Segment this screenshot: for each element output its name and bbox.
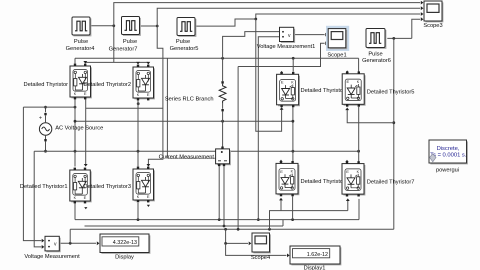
svg-text:powergui: powergui	[436, 168, 459, 174]
open port arrow: thyristor6 E	[279, 160, 282, 162]
svg-text:Pulse: Pulse	[176, 39, 190, 45]
svg-text:E: E	[346, 79, 349, 84]
pulse generator block Pulse Generator7	[122, 17, 141, 36]
svg-text:Voltage Measurement: Voltage Measurement	[24, 254, 80, 260]
wire: bus riser to Detailed Thyristor anode	[74, 58, 76, 63]
wire: thyristor3 cathode drop	[137, 203, 139, 220]
wire: bottom bus riser to Detailed Thyristor7	[358, 199, 360, 220]
open port arrow: thyristor4 E	[280, 71, 283, 73]
node: junction AC minus on mid bus	[44, 150, 47, 153]
block Detailed Thyristor3	[133, 167, 155, 203]
wire: left column down to Voltage Measurement plus	[23, 107, 41, 241]
voltage measurement block VM1	[280, 27, 296, 43]
AC voltage source	[39, 113, 52, 141]
svg-text:Pulse: Pulse	[123, 39, 137, 45]
svg-text:4.322e-13: 4.322e-13	[113, 240, 137, 246]
node: bus junction at Series RLC Branch and VM1	[221, 57, 224, 60]
open port arrow: thyristor1 E down	[84, 207, 87, 209]
svg-text:Detailed Thyristor: Detailed Thyristor	[301, 179, 346, 185]
wire: PG6 signal up to Scope3 input 4	[412, 19, 420, 38]
node: junction on right column at load line	[292, 120, 295, 123]
wire: line from AC plus to left column and anode column	[23, 106, 75, 108]
wire: Current Measurement output drops	[218, 166, 220, 219]
wire: run to Display1	[226, 243, 287, 255]
wire: PG7 gate feed down with jog to Detailed Thyristor3 gate	[148, 26, 163, 164]
pulse generator block Pulse Generator6	[366, 29, 386, 49]
wire: gate branch to Detailed Thyristor5	[347, 110, 394, 123]
node: junction for thyristor5 gate branch	[392, 121, 395, 124]
svg-text:AC Voltage Source: AC Voltage Source	[55, 126, 103, 132]
wire: bus drop to Detailed Thyristor4	[292, 58, 294, 71]
voltage measurement block VM	[45, 236, 61, 252]
svg-text:Detailed Thyristor: Detailed Thyristor	[301, 88, 346, 94]
wire: signal line to Scope1 lower input	[238, 43, 325, 66]
node: junction above AC source	[44, 106, 47, 109]
scope block Scope4	[252, 233, 271, 253]
node: bottom bus junctions	[137, 218, 140, 221]
wire: gray signal run along bottom	[70, 228, 394, 230]
wire: PG7 signal up to Scope3 input 2	[157, 8, 420, 26]
wire: Detailed Thyristor4 down column to Detailed Thyristor6	[292, 107, 294, 161]
block Detailed Thyristor (top left)	[70, 64, 92, 100]
svg-text:E: E	[346, 169, 349, 174]
wire: PG5 gate feed down to Detailed Thyristor4 gate	[256, 19, 282, 131]
wire: gate arrow into thyristor7	[347, 201, 349, 211]
node: junction of VM1 minus on bottom bus	[257, 218, 260, 221]
wire: line into Current Measurement side	[166, 58, 168, 158]
node: junction at PG6 output	[392, 37, 395, 40]
svg-text:Detailed Thyristor5: Detailed Thyristor5	[367, 90, 415, 96]
node: junction to thyristor6/7 gate feed	[268, 228, 271, 231]
svg-text:Detailed Thyristor1: Detailed Thyristor1	[20, 184, 68, 190]
wire: thyristor1 cathode drop to bottom bus	[74, 203, 76, 219]
block Detailed Thyristor2	[133, 65, 155, 101]
series RLC branch resistor	[219, 81, 226, 111]
wire: gate arrow into Detailed Thyristor2 right port	[146, 62, 150, 65]
wire: branch to Scope4	[226, 229, 248, 243]
scope block Scope3	[424, 1, 443, 22]
wire: signal from PG4 junction to Scope3 input 1	[114, 3, 420, 26]
wire: thyristor2 to thyristor3 column	[137, 100, 139, 166]
node: junction on thyristor2 column	[137, 102, 140, 105]
block Detailed Thyristor7 (mirrored)	[342, 161, 365, 196]
node: junction at VM output	[69, 242, 72, 245]
wire: bus drop to Detailed Thyristor5	[358, 58, 360, 72]
wire: Voltage Measurement1 minus input route to bottom bus	[258, 37, 279, 220]
wire: thyristor6 cathode drop	[292, 196, 294, 219]
current measurement block	[216, 147, 231, 167]
wire: thyristor E line down to thyristor1 gate	[85, 99, 87, 164]
block Detailed Thyristor5 (mirrored)	[342, 71, 365, 106]
node: junction on cathode column at load line	[74, 120, 77, 123]
wire: gate arrow into thyristor6	[280, 200, 282, 211]
svg-text:Pulse: Pulse	[74, 39, 88, 45]
display1 block	[290, 246, 341, 265]
wire: second bottom bus	[85, 225, 284, 227]
wire: bus drop to Series RLC Branch	[222, 58, 224, 81]
svg-text:Pulse: Pulse	[368, 51, 382, 57]
wire: vertical feed of Scope1 line from bottom run	[237, 67, 239, 230]
open port arrow: thyristor7 E	[345, 160, 348, 162]
scope block Scope1	[326, 26, 349, 51]
svg-text:E: E	[84, 195, 87, 200]
svg-text:Detailed Thyristor2: Detailed Thyristor2	[83, 82, 131, 88]
wire: load return line	[75, 120, 293, 122]
wire: mid bus left drop to Voltage Measurement minus	[34, 151, 41, 247]
wire: top anode bus	[75, 57, 359, 59]
node: junction on PG5 line	[254, 18, 257, 21]
node: junction CM on second bus	[223, 225, 226, 228]
node: bus junction at Detailed Thyristor4 riser	[292, 57, 295, 60]
svg-text:Generator4: Generator4	[66, 46, 95, 52]
block Detailed Thyristor6 (mirrored)	[276, 161, 299, 196]
svg-text:E: E	[147, 194, 150, 199]
open port arrow: thyristor3 E down	[147, 205, 150, 207]
node: junction at bottom of Scope1 feed	[237, 228, 240, 231]
node: junction at PG4 output	[112, 24, 115, 27]
svg-text:Detailed Thyristor3: Detailed Thyristor3	[83, 184, 131, 190]
wire: Voltage Measurement1 output to Scope1	[294, 34, 325, 36]
svg-text:Display1: Display1	[304, 266, 326, 270]
svg-text:E: E	[147, 92, 150, 97]
svg-text:Discrete,: Discrete,	[437, 146, 460, 152]
svg-text:Generator7: Generator7	[109, 47, 138, 53]
wire: gate arrow into Detailed Thyristor	[83, 61, 87, 64]
wire: Pulse Generator6 output	[387, 37, 412, 39]
wire: branch line from E wire to gate column	[86, 107, 163, 109]
wire: Voltage Measurement1 plus input route from bus	[223, 32, 280, 59]
wire: connector between bottom buses	[282, 220, 284, 226]
node: mid bus junctions	[74, 150, 77, 153]
svg-text:Generator5: Generator5	[170, 46, 199, 52]
wire: gate line across thyristor1 and thyristor2	[85, 61, 148, 63]
svg-text:Series RLC Branch: Series RLC Branch	[165, 97, 214, 103]
svg-text:Scope3: Scope3	[423, 23, 442, 29]
display block	[100, 234, 150, 254]
svg-text:Current Measurement: Current Measurement	[159, 154, 215, 160]
svg-text:E: E	[281, 80, 284, 85]
svg-text:1.62e-12: 1.62e-12	[307, 252, 328, 258]
svg-text:Scope1: Scope1	[327, 53, 346, 59]
wire: left cathode column from thyristor down to thyristor1	[74, 99, 76, 166]
svg-text:Detailed Thyristor7: Detailed Thyristor7	[367, 180, 415, 186]
node: junction at PG7 output	[156, 25, 159, 28]
svg-text:Display: Display	[115, 254, 134, 260]
open port arrow: thyristor5 E	[346, 70, 349, 72]
wire: Series RLC Branch bottom to Current Measurement	[222, 111, 224, 146]
node: junction for Scope4 branch	[224, 228, 227, 231]
pulse generator block Pulse Generator4	[72, 17, 91, 36]
node: junction on anode column	[74, 106, 77, 109]
wire: AC source minus terminal drop	[45, 141, 47, 151]
wire: PG4 gate feed down to thyristor gate line	[113, 26, 115, 63]
pulse generator block Pulse Generator5	[177, 18, 196, 37]
wire: bottom bus	[75, 219, 359, 221]
powergui block	[429, 140, 468, 164]
wire: mid horizontal bus	[34, 150, 358, 152]
svg-text:Detailed Thyristor: Detailed Thyristor	[24, 82, 69, 88]
svg-text:Generator6: Generator6	[362, 58, 391, 64]
wire: Pulse Generator4 output to junction	[90, 25, 114, 27]
wire: PG6 gate feed long vertical	[393, 38, 395, 229]
wire: gate feed line for Detailed Thyristor6 and Detailed Thyristor7	[270, 211, 348, 230]
svg-text:Voltage Measurement1: Voltage Measurement1	[257, 44, 316, 50]
wire: gate arrow into Detailed Thyristor2 left port	[136, 62, 140, 65]
wire: Pulse Generator7 output to junction	[139, 25, 157, 27]
node: junction RLC column on load line	[221, 120, 224, 123]
node: junction to Display1 run	[224, 242, 227, 245]
block Detailed Thyristor1 (bottom left)	[70, 168, 92, 204]
wire: AC source plus terminal line	[45, 107, 47, 112]
wire: Voltage Measurement output to Display	[59, 242, 96, 244]
block Detailed Thyristor4 (mirrored)	[277, 72, 300, 107]
svg-text:E: E	[280, 169, 283, 174]
wire: VM output rise to signal run	[69, 229, 71, 243]
svg-text:E: E	[84, 91, 87, 96]
wire: Pulse Generator5 output route to Scope3 input 3	[195, 14, 420, 26]
wire: Detailed Thyristor5 down column to Detailed Thyristor7	[358, 107, 360, 162]
svg-text:Scope4: Scope4	[251, 255, 270, 261]
svg-text:+: +	[39, 115, 42, 121]
